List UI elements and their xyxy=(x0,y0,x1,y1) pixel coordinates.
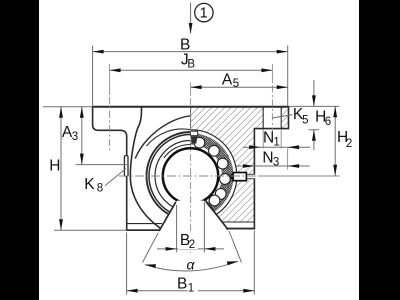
svg-text:H: H xyxy=(49,157,60,174)
svg-text:3: 3 xyxy=(273,156,279,168)
svg-text:α: α xyxy=(187,256,196,272)
svg-text:K: K xyxy=(84,176,95,193)
svg-text:1: 1 xyxy=(188,283,194,295)
svg-text:5: 5 xyxy=(302,114,308,126)
svg-text:5: 5 xyxy=(233,78,239,90)
svg-text:6: 6 xyxy=(325,116,331,128)
svg-text:8: 8 xyxy=(97,182,103,194)
svg-text:1: 1 xyxy=(273,136,279,148)
svg-text:B: B xyxy=(177,276,187,293)
svg-text:B: B xyxy=(187,59,195,71)
svg-text:A: A xyxy=(222,71,233,88)
svg-text:2: 2 xyxy=(346,138,352,150)
svg-text:3: 3 xyxy=(72,131,78,143)
svg-text:1: 1 xyxy=(200,6,208,22)
svg-text:2: 2 xyxy=(189,239,195,251)
